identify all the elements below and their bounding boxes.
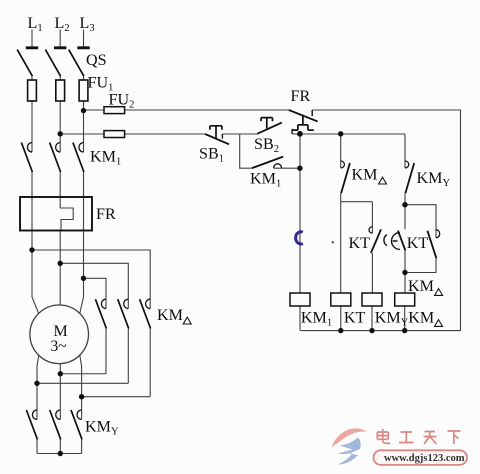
- svg-text:FR: FR: [96, 206, 116, 223]
- svg-text:SB2: SB2: [254, 136, 279, 155]
- svg-text:FR: FR: [291, 88, 311, 105]
- svg-text:KMY: KMY: [375, 309, 409, 328]
- svg-text:KM: KM: [157, 307, 183, 324]
- svg-text:SB1: SB1: [199, 146, 224, 165]
- svg-text:L3: L3: [80, 15, 95, 34]
- svg-text:L2: L2: [55, 15, 70, 34]
- svg-text:QS: QS: [86, 52, 107, 69]
- svg-text:KM1: KM1: [301, 309, 332, 328]
- svg-text:3~: 3~: [51, 338, 67, 355]
- svg-text:KM: KM: [408, 278, 434, 295]
- svg-text:KM: KM: [408, 309, 434, 326]
- svg-text:L1: L1: [28, 15, 43, 34]
- svg-text:KM1: KM1: [250, 171, 281, 190]
- svg-text:KMY: KMY: [85, 419, 119, 438]
- svg-text:www.dgjs123.com: www.dgjs123.com: [384, 453, 465, 464]
- svg-text:KT: KT: [407, 235, 429, 252]
- svg-text:KMY: KMY: [417, 170, 451, 189]
- svg-text:KM1: KM1: [90, 149, 121, 168]
- svg-text:KT: KT: [344, 309, 366, 326]
- svg-text:FU2: FU2: [109, 92, 135, 111]
- svg-text:KM: KM: [352, 167, 378, 184]
- svg-text:KT: KT: [349, 235, 371, 252]
